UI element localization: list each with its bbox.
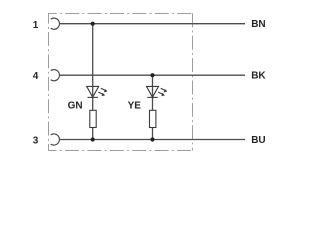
svg-text:3: 3 [33,135,39,146]
svg-text:1: 1 [33,20,39,31]
svg-text:YE: YE [128,101,142,112]
svg-text:BN: BN [251,19,265,30]
svg-text:4: 4 [33,71,39,82]
svg-text:GN: GN [68,101,83,112]
svg-text:BK: BK [251,71,266,82]
svg-text:BU: BU [251,135,265,146]
